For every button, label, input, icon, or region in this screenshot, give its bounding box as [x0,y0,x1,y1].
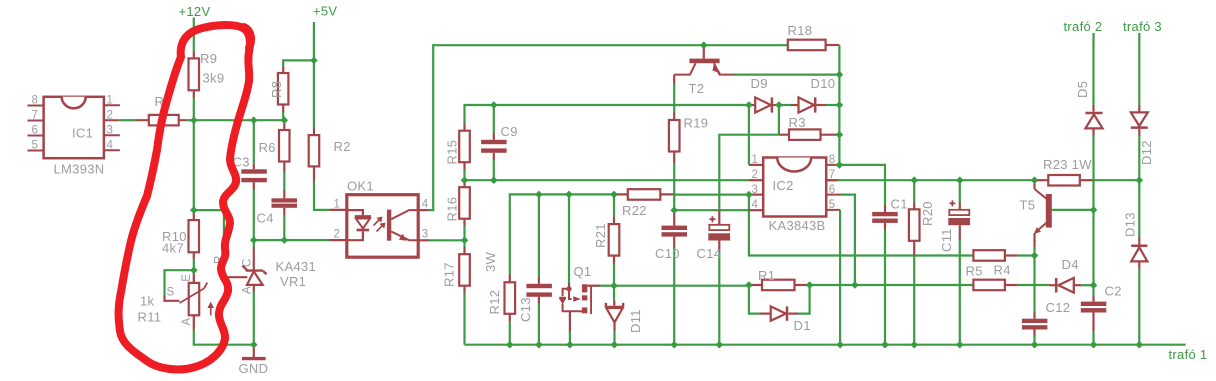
wire row105 [465,105,749,123]
wire D9 node down to IC2 pin1 [748,105,750,165]
resistor R16 [445,182,470,227]
wire T2 collector to R19 [673,75,675,84]
resistor R10 4k7 [162,214,199,259]
svg-text:R19: R19 [684,116,709,131]
node IC2 pin6 row [851,281,859,289]
resistor R18 [788,23,840,50]
wire T2 emitter row to right column [734,73,839,75]
wire OK1 pin3 to R16 R17 node [418,239,428,241]
rail junction trafo3 [1136,341,1144,349]
diode D5 [1075,81,1103,136]
resistor R20 [909,180,935,345]
resistor R19 [669,116,708,164]
svg-text:8: 8 [32,95,39,107]
node R7/R9/R10 [190,116,198,124]
rail junction C11 [956,341,964,349]
node E pot wiper loop [190,266,198,274]
wire C4 to row240 [283,215,285,240]
svg-text:R15: R15 [445,140,460,165]
node R4/T5 emitter [1031,252,1039,260]
wire R12 to rail [509,321,511,345]
wire D9 node down to R3 row [778,105,780,135]
wire node R7 to +12V column [186,119,193,121]
wire R8 bottom to row120 [282,112,284,120]
svg-text:4k7: 4k7 [162,241,184,256]
svg-text:D12: D12 [1139,140,1154,165]
wire right column R18 down to IC2 pin8 [838,45,840,165]
svg-text:R23 1W: R23 1W [1043,157,1092,172]
rail junction R20 [910,341,918,349]
wire OK1 pin4 up and top rail [418,209,428,211]
OK1 light arrows [374,218,385,232]
svg-text:D13: D13 [1123,212,1138,237]
node C9 top [490,101,498,109]
svg-text:R3: R3 [789,115,806,130]
svg-text:4: 4 [107,140,114,152]
svg-text:IC1: IC1 [72,126,93,141]
capacitor C11 electrolytic [939,180,970,345]
svg-text:R17: R17 [442,262,457,287]
svg-text:trafó 1: trafó 1 [1169,347,1208,362]
svg-text:R21: R21 [593,223,608,248]
svg-text:1: 1 [752,154,759,166]
wire S loop [165,270,194,296]
svg-text:D10: D10 [811,76,836,91]
svg-text:C2: C2 [1105,284,1122,299]
resistor R3 [779,115,840,140]
svg-text:3: 3 [422,229,429,241]
svg-text:R20: R20 [920,201,935,226]
resistor R4 [973,250,1034,277]
wire trafo3 to D13 [1138,136,1140,238]
svg-text:7: 7 [32,110,39,122]
node C3/KA431 [250,236,258,244]
svg-text:KA3843B: KA3843B [769,218,826,233]
wire R8 top to +5V [283,60,314,66]
resistor R22 [614,189,674,218]
transistor Q1 mosfet [559,264,600,314]
wire trafo3 down [1138,33,1140,105]
wire node down to R10 [193,120,195,213]
svg-text:trafó 2: trafó 2 [1064,19,1103,34]
svg-text:Q1: Q1 [574,264,592,279]
IC1 pin leads right 1,2,3,4 [104,105,120,150]
wire IC2 pin6 down to row285 [841,195,855,285]
IC1 pin numbers [32,95,114,177]
OK1 pin numbers [334,199,429,241]
wire IC2 pin8 to C1 [839,165,885,205]
node R21/R22 [610,191,618,199]
svg-text:T5: T5 [1020,198,1036,213]
svg-text:C: C [242,258,254,267]
wire KA431 ref [194,210,224,272]
svg-text:R22: R22 [622,203,647,218]
rail junction C1 [881,341,889,349]
svg-text:D5: D5 [1075,81,1090,98]
svg-text:R2: R2 [334,139,351,154]
node C10/IC2 pin4 [670,206,678,214]
svg-text:+12V: +12V [179,4,211,19]
zener diode D11 [606,286,643,333]
capacitor C4 [257,191,298,226]
node R3 right [836,131,844,139]
capacitor C9 [481,105,518,180]
svg-text:C1: C1 [891,197,908,212]
node GND [250,341,258,349]
wire trafo2 middle [1092,136,1094,297]
node +5V/R8 [310,57,318,65]
svg-text:KA431: KA431 [276,259,317,274]
wire R3 left corner down to C14 node [719,135,779,211]
node R16/R17/OK1 pin3 [461,237,469,245]
capacitor C13 [518,194,552,344]
rail junction D11 [611,341,619,349]
svg-text:C12: C12 [1046,300,1071,315]
IC1 LM393N body [44,97,104,158]
resistor R1 [749,268,806,290]
svg-text:OK1: OK1 [347,179,374,194]
wire trafo2 down [1092,33,1094,105]
capacitor C14 electrolytic [697,210,731,345]
wire row240 C3 C4 to OK1 pin2 [254,239,330,241]
svg-text:D9: D9 [751,76,768,91]
node C4 [281,236,289,244]
svg-text:D11: D11 [628,309,643,333]
wire IC1 pin2 to R7 [119,119,135,121]
IC2 pin numbers [752,154,836,211]
node R8/R6 [281,116,289,124]
diode D12 [1131,105,1154,165]
wire T5 emitter to row255 [1033,247,1035,256]
capacitor C12 [1022,256,1070,345]
svg-text:5: 5 [32,140,39,152]
resistor R7 [135,94,187,125]
wire IC2 pin5 down to rail [839,210,841,345]
node D13 top [1136,176,1144,184]
svg-text:VR1: VR1 [280,274,306,289]
diode D13 [1123,212,1148,268]
resistor R21 [593,194,619,285]
svg-text:6: 6 [32,125,39,137]
svg-text:R9: R9 [200,51,217,66]
svg-text:R5: R5 [966,264,983,279]
node D10 cathode [836,101,844,109]
resistor R23 1W [1037,157,1094,186]
wire Q1 source to rail [569,311,571,331]
wire R23 to trafo3 [1094,179,1140,181]
wire R10 to E node [193,259,195,271]
wire row120 to C3 R6 [194,119,284,121]
svg-text:C14: C14 [697,246,722,261]
svg-text:C13: C13 [518,297,533,322]
diode D10 [791,76,835,113]
ground rail bottom [465,344,1186,346]
svg-text:trafó 3: trafó 3 [1123,19,1162,34]
svg-text:C10: C10 [655,246,680,261]
wire D9 D10 node [779,104,791,106]
ground symbol GND left [239,345,269,376]
node C11 top [956,176,964,184]
svg-text:1: 1 [334,199,341,211]
resistor R9 3k9 [189,51,225,98]
node C9 bottom [490,176,498,184]
svg-text:4: 4 [422,199,429,211]
resistor R5 [966,264,1051,291]
node IC2 pin8 [836,161,844,169]
wire R2 to OK1 pin1 [314,181,329,210]
svg-text:T2: T2 [689,81,705,96]
svg-text:8: 8 [829,154,836,166]
node IC2 pin3 [745,191,753,199]
wire Q1 gate drive [568,194,570,283]
node T2 top [700,41,708,49]
node Q1 gate row [565,191,573,199]
wire R17 bottom to ground rail [463,293,465,345]
svg-text:IC2: IC2 [773,178,794,193]
svg-text:2: 2 [107,110,114,122]
wire R11 bottom to GND net [193,315,195,329]
svg-text:3k9: 3k9 [203,71,225,86]
resistor R17 [442,247,470,293]
resistor R15 [445,123,470,170]
svg-text:A: A [181,318,193,326]
resistor R6 [259,120,290,172]
shunt reference VR1 KA431 [242,240,317,294]
node R15/R16 [461,176,469,184]
node R20 top [910,176,918,184]
rail junction C13 [535,341,543,349]
pot R11 wiper lead S [165,296,180,301]
rail junction R12 [506,341,514,349]
wire T5 base to trafo2 [1052,209,1094,211]
node R23/T5 collector [1031,176,1039,184]
svg-text:C11: C11 [939,228,954,252]
OK1 internal LED [347,210,371,240]
potentiometer R11 1k [138,270,215,325]
wire R22 to IC2 pin3 [674,194,749,196]
optocoupler OK1 box [347,179,418,258]
wire IC2 pin4 row [674,209,749,211]
resistor R2 [309,127,351,181]
svg-text:C4: C4 [257,211,274,226]
wire Vcc row pin7 [826,179,838,181]
rail junction IC2 pin5 [836,341,844,349]
capacitor C10 [655,210,687,345]
svg-text:D4: D4 [1062,257,1079,272]
wire R15 bottom to row180 [463,170,465,182]
wire D4 to trafo2 [1081,284,1094,286]
svg-text:3: 3 [107,125,114,137]
wire row180 to IC2 pin2 [465,179,749,181]
wire +5V down [313,22,315,127]
node C3 top [250,116,258,124]
capacitor C2 [1081,284,1122,345]
svg-text:R16: R16 [445,197,460,222]
svg-text:A: A [242,286,254,294]
svg-text:R8: R8 [269,81,284,98]
capacitor C3 [233,120,267,190]
node R1 right/D1 [806,281,814,289]
wire R19 bottom down to C10 node [673,163,675,210]
node D9/D10/R3 [775,101,783,109]
svg-text:R11: R11 [138,310,162,325]
wire R9 to node [193,98,195,120]
node C13 top [535,191,543,199]
wire D10 to right column [826,104,839,106]
wire D13 to rail [1138,269,1140,345]
svg-text:E: E [181,274,193,282]
diode D1 bypass loop [749,285,811,333]
wire R6 to C4 [283,172,285,191]
svg-text:1k: 1k [140,294,155,309]
node T5 base/trafo2 [1090,206,1098,214]
wire gate row [510,194,614,274]
wire D11 to rail [613,331,615,345]
svg-text:R18: R18 [788,23,813,38]
rail junction C2/trafo2 [1090,341,1098,349]
node D4/trafo2 [1090,281,1098,289]
wire IC2 pin3 node down and row255 [749,195,974,256]
svg-text:D1: D1 [794,318,811,333]
transistor T5 [1020,180,1052,247]
diode D4 [1050,257,1081,293]
svg-text:2: 2 [334,229,341,241]
resistor R8 [269,67,288,113]
transistor T2 [674,45,734,96]
node R10/KA431 ref [190,206,198,214]
wire +12V down [193,18,195,52]
wire R1 right to pin6 node and R5 [806,284,973,286]
rail junction Q1 [566,341,574,349]
svg-text:LM393N: LM393N [54,162,105,177]
svg-text:R1: R1 [758,268,775,283]
svg-text:1: 1 [107,95,114,107]
OK1 internal phototransistor [387,210,418,241]
svg-text:6: 6 [829,184,836,196]
capacitor C1 [872,197,908,345]
svg-text:R12: R12 [487,290,502,315]
svg-text:3: 3 [752,184,759,196]
node R1 left/D1 [745,281,753,289]
node T2 emitter [836,71,844,79]
svg-text:R6: R6 [259,140,276,155]
rail junction C12 [1031,341,1039,349]
svg-text:S: S [167,287,175,299]
svg-text:R4: R4 [994,263,1011,278]
rail junction C10 [670,341,678,349]
IC2 KA3843B body [763,158,826,234]
diode D9 [749,76,779,113]
wire row285 Q1 drain to R1 [614,285,749,287]
wire R16 bottom to pin3 node [463,226,465,247]
svg-text:+5V: +5V [313,4,337,19]
wire KA431 anode down [253,292,255,345]
svg-text:3W: 3W [483,251,498,272]
node D9 anode [745,101,753,109]
resistor R12 3W [483,251,515,321]
IC1 pin leads left 8,7,6,5 [28,106,44,151]
svg-text:GND: GND [239,361,269,376]
wire Q1 drain to node [600,285,614,287]
rail junction C14 [716,341,724,349]
svg-text:2: 2 [752,169,759,181]
svg-text:5: 5 [829,199,836,211]
IC2 pin leads right [826,165,840,210]
svg-text:C9: C9 [501,124,518,139]
node Q1 drain/D11 [610,282,618,290]
freehand red annotation loop [119,25,251,369]
wire C3 to row240 [253,190,255,240]
